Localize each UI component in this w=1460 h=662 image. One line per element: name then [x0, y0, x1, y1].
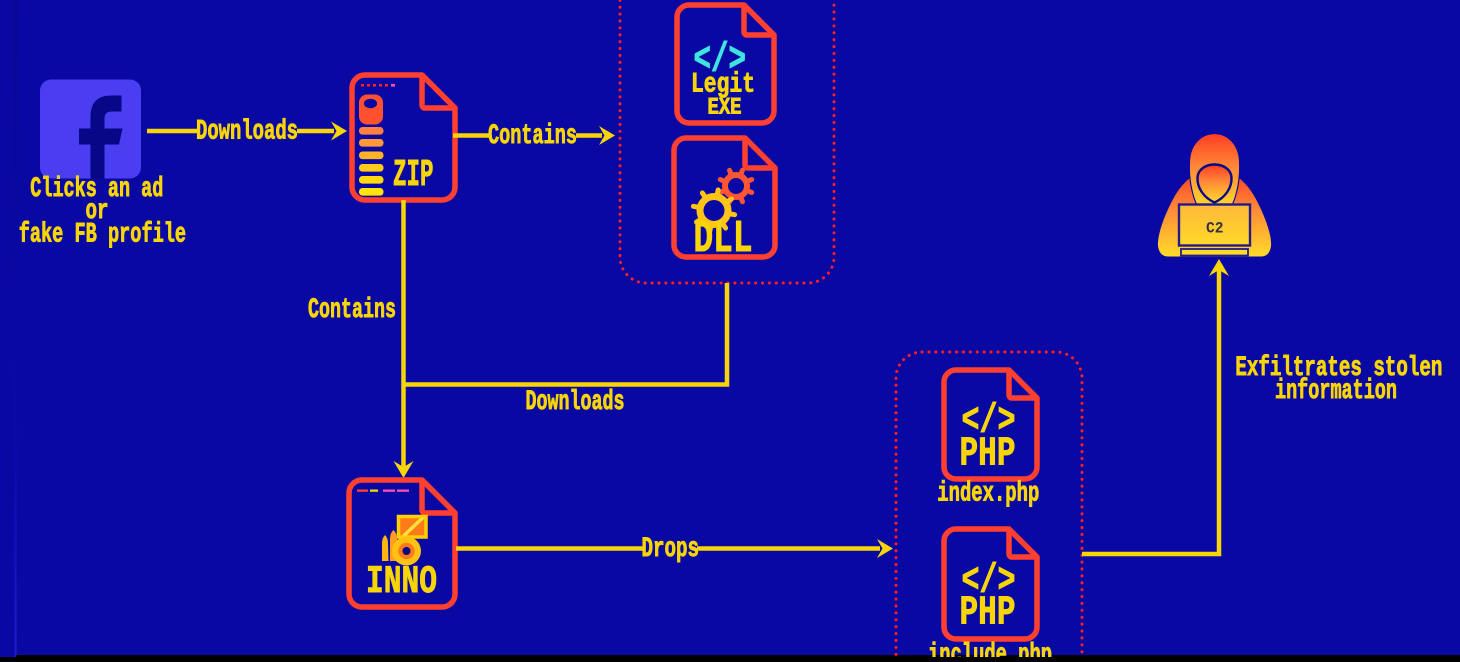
hacker hood: [1189, 134, 1239, 209]
wire FB to ZIP: [147, 129, 198, 134]
Legit EXE file icon: [677, 5, 774, 123]
INNO setup file icon: [349, 480, 455, 607]
svg-text:ZIP: ZIP: [393, 154, 434, 197]
svg-text:PHP: PHP: [960, 432, 1016, 478]
svg-text:DLL: DLL: [694, 214, 753, 265]
faint vertical fold line: [15, 0, 17, 657]
PHP file icon include.php: [944, 529, 1037, 639]
svg-text:INNO: INNO: [366, 560, 437, 604]
DLL file icon: [674, 138, 775, 265]
svg-text:Contains: Contains: [488, 121, 577, 152]
gear small: [720, 170, 751, 201]
gear large: [693, 190, 734, 231]
svg-text:index.php: index.php: [937, 479, 1039, 510]
svg-text:PHP: PHP: [960, 591, 1016, 637]
svg-text:information: information: [1275, 376, 1397, 407]
wire box1 to junction: [404, 283, 728, 385]
wire PHP box to C2: [1082, 268, 1219, 554]
svg-text:Contains: Contains: [308, 295, 396, 326]
facebook icon: [40, 80, 141, 179]
hacker C2 icon: [1158, 134, 1271, 257]
svg-text:Downloads: Downloads: [526, 387, 625, 418]
hacker shoulders/body: [1158, 169, 1271, 257]
inno logo disc: [392, 537, 421, 566]
dotted group box: dropped php files: [896, 352, 1082, 662]
PHP file icon index.php: [944, 370, 1037, 479]
wire ZIP to EXE/DLL box: [453, 133, 490, 138]
laptop screen: [1179, 205, 1250, 246]
svg-text:Downloads: Downloads: [196, 117, 298, 148]
svg-text:EXE: EXE: [708, 95, 742, 121]
inno logo screen: [399, 517, 427, 538]
svg-text:include.php: include.php: [928, 640, 1052, 657]
hacker face: [1197, 165, 1231, 203]
wire into ZIP with arrowhead: [297, 129, 334, 134]
bottom black strip: [16, 655, 1460, 657]
svg-text:Drops: Drops: [642, 534, 700, 565]
wire INNO to PHP box: [456, 546, 643, 551]
ZIP file icon: [352, 75, 455, 200]
inno logo flame bars: [382, 535, 389, 561]
wire ZIP down to INNO: [401, 200, 406, 470]
laptop base: [1181, 249, 1248, 256]
tiny header text marks: [357, 490, 409, 492]
svg-text:C2: C2: [1206, 220, 1224, 238]
dotted group box: archive contents: [620, 0, 834, 283]
svg-text:fake FB profile: fake FB profile: [19, 220, 186, 251]
